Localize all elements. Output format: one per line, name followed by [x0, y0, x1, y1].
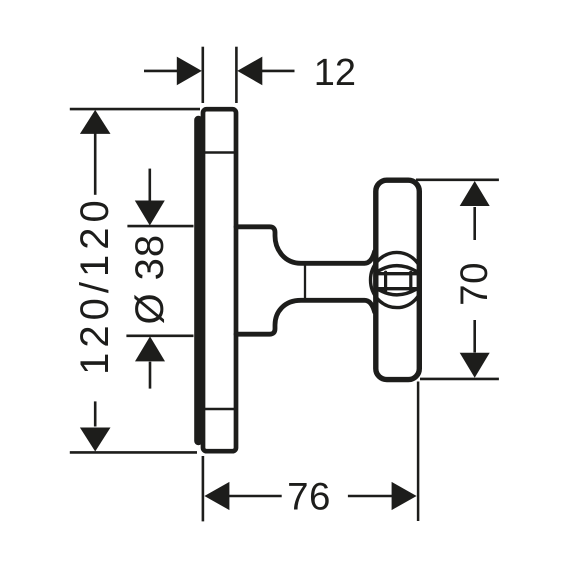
- 70 up arrow: [460, 181, 490, 206]
- extension line top of 70: [416, 179, 499, 182]
- 38 down arrow: [135, 201, 165, 226]
- svg-text:12: 12: [314, 52, 356, 94]
- 12 left arrow: [144, 70, 178, 73]
- knob slot top line: [378, 272, 418, 275]
- 12 right arrow: [261, 70, 295, 73]
- svg-text:70: 70: [453, 262, 496, 306]
- 70 dim line upper: [473, 207, 476, 240]
- dimension 12 (plate thickness): [144, 47, 295, 103]
- extension line bottom of 38: [126, 334, 193, 337]
- 120/120 top arrow: [80, 110, 111, 134]
- knob tick right: [409, 272, 412, 290]
- plate inner line bottom: [205, 408, 235, 411]
- extension line left of 76: [202, 456, 205, 521]
- extension line bottom of 120/120: [70, 451, 197, 454]
- 120/120 bottom arrow: [80, 428, 111, 452]
- extension line top of 120/120: [70, 108, 200, 111]
- handle bar (cross handle side view): [376, 180, 420, 379]
- 70 down arrow: [460, 353, 490, 378]
- plate inner line top: [205, 151, 235, 154]
- svg-text:76: 76: [287, 476, 331, 519]
- extension line left of 12: [202, 47, 205, 103]
- 38 upper leader line: [149, 169, 152, 201]
- 38 lower leader line: [149, 362, 152, 389]
- extension line right of 12: [235, 47, 238, 103]
- extension line bottom of 70: [420, 378, 499, 381]
- 120/120 dim line lower: [94, 401, 97, 426]
- 76 right arrow: [348, 495, 394, 498]
- extension line right of 76: [417, 382, 420, 522]
- dimension 70 (handle height): [416, 180, 499, 379]
- valve hub and stem upper contour: [236, 227, 375, 263]
- escutcheon plate (side view): [203, 109, 236, 451]
- 120/120 dim line upper: [94, 133, 97, 195]
- stem joint line: [304, 265, 306, 298]
- svg-text:Ø 38: Ø 38: [128, 234, 172, 325]
- 76 left arrow: [228, 495, 282, 498]
- dimension Ø38 (hub diameter): [126, 169, 193, 389]
- knob tick left: [384, 272, 387, 290]
- 70 dim line lower: [473, 320, 476, 353]
- knob slot bottom line: [378, 287, 418, 290]
- knob upper band arc: [378, 266, 415, 271]
- svg-text:120/120: 120/120: [73, 195, 117, 375]
- dimension 120/120 (plate size): [70, 109, 200, 452]
- valve hub and stem lower contour: [236, 300, 375, 334]
- dimension 76 (depth): [203, 382, 418, 522]
- extension line top of 38: [127, 225, 193, 228]
- 38 up arrow: [135, 336, 165, 361]
- knob lower band arc: [378, 290, 415, 295]
- wall flange (thin back plate): [196, 118, 200, 443]
